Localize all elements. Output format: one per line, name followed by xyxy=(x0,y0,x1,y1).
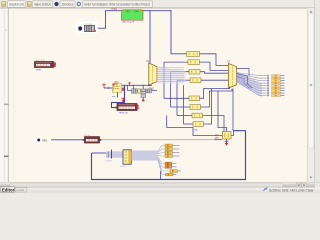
resistor RT6 xyxy=(272,87,281,89)
bottom stack resistors top group xyxy=(165,144,180,157)
lower resistor Rd xyxy=(193,122,204,132)
left harness fan bundle xyxy=(157,67,186,85)
wire R1 right xyxy=(200,54,229,66)
capacitor C2 vertical xyxy=(141,89,146,101)
connector J2 xyxy=(123,150,131,164)
resistor RN2A xyxy=(165,162,177,165)
status icon xyxy=(264,188,268,192)
stub to bottom stack xyxy=(160,171,162,180)
wire vertical x218 xyxy=(218,91,227,132)
resistor RN1B xyxy=(165,148,180,151)
resistor R4 xyxy=(190,78,201,83)
doc icon 2 xyxy=(27,2,31,6)
junction xyxy=(148,84,150,86)
wire relay right xyxy=(143,10,171,12)
top document tab bar xyxy=(0,0,320,8)
resistor RT3 xyxy=(272,80,281,82)
ground under Q1 xyxy=(226,139,228,141)
left collapsed panel strip xyxy=(0,8,9,188)
ground port at junction xyxy=(122,98,125,102)
resistor RT1 xyxy=(272,75,281,77)
svg-text:Devices: Devices xyxy=(62,3,74,7)
wire top of fan xyxy=(237,69,250,76)
wire RT5 right lead xyxy=(281,85,285,87)
resistor RN1A xyxy=(165,144,180,147)
bus out of J2 xyxy=(131,151,158,161)
wire R4 right xyxy=(201,79,229,81)
svg-text:HDR 2x5: HDR 2x5 xyxy=(119,113,129,115)
lower resistor Rc xyxy=(192,113,203,118)
big loop wire xyxy=(92,131,246,180)
h scrollbar arrows xyxy=(296,183,301,187)
sheet border faint xyxy=(13,10,15,180)
right window edge xyxy=(315,0,320,193)
thick wire U1 to J1 xyxy=(112,85,125,107)
svg-text:Editor: Editor xyxy=(2,187,15,192)
dark fan edge lines at U2 right xyxy=(237,74,253,89)
junction dot row 1 xyxy=(267,75,269,77)
tab 4 vendor tool xyxy=(83,1,153,8)
svg-text:VIN: VIN xyxy=(215,137,219,140)
resistor RT7 xyxy=(272,90,281,92)
resistor RN2D xyxy=(166,173,177,176)
resistor R1 xyxy=(187,52,200,57)
power port on rail xyxy=(128,82,130,85)
bus segment to J2 xyxy=(106,151,123,157)
doc icon 3 devices xyxy=(54,2,58,6)
lower resistor Ra xyxy=(189,96,200,101)
wire vertical to R1 xyxy=(171,11,187,54)
bottom bundle wire entry xyxy=(92,152,107,154)
wire RT7 right lead xyxy=(281,90,285,92)
svg-text:SchDoc Grid: Hot Level Clear: SchDoc Grid: Hot Level Clear xyxy=(269,188,314,192)
lower resistor Rb xyxy=(190,105,201,110)
resistor R2 xyxy=(188,60,200,65)
wire RT3 right lead xyxy=(281,80,285,82)
junction dot row 8 xyxy=(267,92,269,94)
resistor RN2C xyxy=(170,170,181,173)
wire Rd right xyxy=(204,89,212,125)
capacitor C1 xyxy=(132,89,138,93)
wire RT4 right lead xyxy=(281,82,285,84)
wire Ra left xyxy=(164,97,189,99)
svg-text:out: out xyxy=(112,95,115,98)
wire RT1 right lead xyxy=(281,75,285,77)
wire R2 right xyxy=(200,62,229,70)
resistor RT9 xyxy=(272,95,281,97)
resistor RN1D xyxy=(165,155,180,158)
cap rail stubs xyxy=(127,85,129,90)
resistor RT4 xyxy=(272,82,281,84)
svg-text:reception UHC: reception UHC xyxy=(9,3,25,7)
junction dot row 6 xyxy=(267,87,269,89)
svg-text:DB15: DB15 xyxy=(120,166,126,168)
resistor RT5 xyxy=(272,85,281,87)
wire Rb right xyxy=(201,89,233,107)
tab 2 schdoc xyxy=(33,1,53,8)
wire R2 left xyxy=(164,61,188,63)
junction dot row 4 xyxy=(267,82,269,84)
fuse F1 xyxy=(83,134,102,143)
highlight patch behind crystal xyxy=(76,22,99,34)
capacitor C3 xyxy=(146,89,152,93)
resistor RT2 xyxy=(272,77,281,79)
regulator U1 xyxy=(113,81,125,92)
wire Ra right xyxy=(200,87,230,99)
right harness fan bundle xyxy=(237,72,263,98)
svg-text:panels: panels xyxy=(17,188,25,192)
bus entry tick 2 xyxy=(107,152,109,158)
wire Rc right xyxy=(203,116,225,132)
switch SW1 xyxy=(35,60,56,71)
termination resistor stack xyxy=(267,75,269,96)
wire trapezoid bottom down xyxy=(232,89,234,131)
wire RT2 right lead xyxy=(281,77,285,79)
net wire lavender long xyxy=(102,139,215,141)
wire RT9 right lead xyxy=(281,95,285,97)
resistor R3 xyxy=(189,69,200,74)
cap wire lower xyxy=(128,90,158,92)
bottom stack resistors bottom group xyxy=(165,162,181,176)
transistor Q1 part xyxy=(215,132,231,140)
connector J1 xyxy=(115,104,139,115)
wire net into Q1 left xyxy=(167,116,223,136)
bottom stack top group fan xyxy=(158,146,170,175)
wire Q1 right to big loop xyxy=(231,131,234,136)
wire Rb left xyxy=(171,106,191,108)
wire U1 left xyxy=(104,87,113,89)
junction dot row 2 xyxy=(267,77,269,79)
junction dot row 7 xyxy=(267,90,269,92)
crystal Y1 xyxy=(84,24,96,32)
tab 3 Devices xyxy=(60,1,75,8)
junction dot row 9 xyxy=(267,95,269,97)
wire R4 left xyxy=(177,79,190,81)
wire vertical to left connector top xyxy=(149,11,151,63)
connector U2 (right harness) xyxy=(227,61,237,89)
bus entry tick xyxy=(111,150,113,159)
junction dot row 3 xyxy=(267,80,269,82)
wire U1 bottom xyxy=(117,93,119,98)
power port left of U1 xyxy=(103,84,106,88)
svg-text:CON14: CON14 xyxy=(105,160,113,162)
wire R3 left xyxy=(171,71,190,73)
connector U4 (left harness) xyxy=(146,60,157,85)
resistor RN2B xyxy=(165,165,177,168)
wire from crystal to relay loop xyxy=(96,11,122,29)
wire RT6 right lead xyxy=(281,87,285,89)
second tab xyxy=(15,188,27,192)
doc icon 4 xyxy=(77,2,81,6)
small part D1 xyxy=(138,89,141,93)
vertical scrollbar xyxy=(307,8,315,183)
svg-text:Vendor Tool Installation | Onl: Vendor Tool Installation | Online Docume… xyxy=(84,3,150,7)
svg-text:native SchDoc: native SchDoc xyxy=(34,3,51,7)
wire XP1 to F1 xyxy=(51,139,83,141)
h scrollbar thumb xyxy=(10,183,283,187)
tab 1 reception xyxy=(8,1,26,8)
wire R3 right xyxy=(200,72,229,74)
relay K1 xyxy=(122,10,144,21)
svg-text:XP1: XP1 xyxy=(42,138,47,142)
resistor RN1C xyxy=(165,151,180,154)
status bar xyxy=(0,187,320,193)
svg-text:J6B relay 2P: J6B relay 2P xyxy=(122,21,135,24)
doc icon 1 xyxy=(2,2,6,6)
Editor tab xyxy=(1,187,15,192)
wire RT8 right lead xyxy=(281,92,285,94)
junction dot row 5 xyxy=(267,85,269,87)
resistor RT8 xyxy=(272,92,281,94)
long wire +5 rail xyxy=(122,84,153,86)
svg-text:PW1: PW1 xyxy=(112,7,118,11)
wire Rc left xyxy=(177,115,192,117)
node dot XS1 xyxy=(78,26,82,30)
vertical net wires center xyxy=(163,62,165,98)
canvas sheet xyxy=(9,8,307,183)
wire Rd left xyxy=(184,123,194,125)
node XP1 xyxy=(37,139,40,142)
svg-text:SW8: SW8 xyxy=(36,69,42,71)
